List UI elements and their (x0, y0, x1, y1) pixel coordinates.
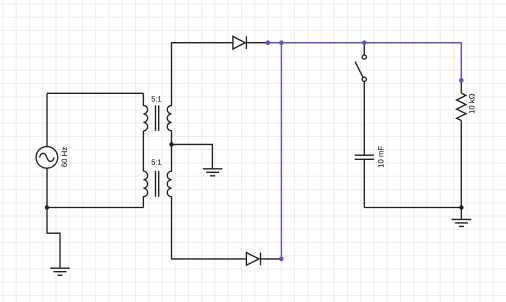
label: 60 Hz (62, 147, 68, 167)
node: switch branch junction (362, 40, 367, 45)
node: D2 output junction (279, 257, 284, 262)
node: D1 output junction (266, 40, 271, 45)
wire: resistor top lead (460, 80, 462, 93)
label: T1 ratio 5:1 (152, 96, 162, 101)
wire: link T1 primary to T2 primary (142, 131, 144, 171)
wire: junction down to left ground (47, 208, 60, 268)
wire: primary loop bottom rail (47, 207, 143, 209)
wire: bottom rail capacitor to resistor node (364, 207, 461, 209)
resistor 10 kOhm (457, 93, 466, 120)
wire: switch bottom lead to capacitor (363, 81, 365, 155)
transformer T1 primary winding (143, 93, 147, 131)
transformer T1 secondary winding with top lead to diode D1 (167, 43, 233, 145)
wire: capacitor bottom lead (363, 159, 365, 207)
diode D1 (233, 36, 247, 49)
ground: middle (center tap) (203, 169, 223, 176)
blue wire: node down to D2 output (280, 43, 282, 259)
wire: resistor bottom lead (460, 121, 462, 208)
wire: primary loop top rail (47, 92, 143, 94)
wire: right ground stub (460, 208, 462, 220)
AC source V1 (36, 147, 58, 169)
transformer T2 core bars (156, 171, 159, 197)
capacitor 10 mF (355, 155, 375, 159)
wire: source top to primary loop top-left corner (46, 93, 48, 146)
wire: source bottom to junction (46, 168, 48, 207)
label: 10 mF (378, 146, 384, 167)
node: bottom-right ground junction (459, 205, 463, 209)
transformer T1 core bars (156, 105, 159, 131)
wire: switch top lead (363, 43, 365, 55)
label: T2 ratio 5:1 (152, 159, 162, 164)
label: 10 kOhm (469, 94, 475, 114)
node: resistor top junction (459, 78, 464, 83)
blue wire: D1 node to top-right corner down to resistor (268, 43, 461, 81)
node: center tap junction (169, 142, 173, 146)
node: source bottom junction (45, 205, 49, 209)
ground: left (50, 268, 70, 275)
wire: diode D2 cathode to node (261, 258, 282, 260)
switch S1 (355, 55, 366, 81)
transformer T2 secondary winding with bottom lead to diode D2 (167, 144, 246, 259)
wire: center tap to middle ground (172, 144, 213, 168)
diode D2 (246, 253, 260, 266)
ground: right (452, 219, 472, 226)
transformer T2 primary winding (143, 171, 147, 207)
node: top rail / vertical tie junction (279, 40, 284, 45)
wire: diode D1 cathode to node (246, 42, 268, 44)
